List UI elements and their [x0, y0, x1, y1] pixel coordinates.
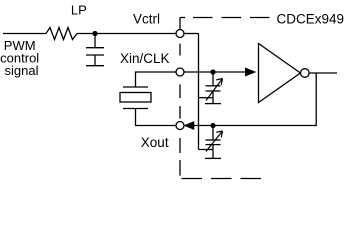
ground bar varactor C1 [205, 103, 221, 105]
crystal bottom plate [123, 108, 148, 110]
varactor C1 plate 1 [206, 85, 221, 87]
wire resistor to Vctrl pin [77, 33, 176, 35]
arrowhead into inverter [246, 68, 256, 76]
varactor C2 bottom wire [212, 145, 214, 159]
wire stub rail to varactor C1 [199, 97, 214, 99]
pin Vctrl [176, 30, 184, 38]
svg-text:CDCEx949: CDCEx949 [277, 12, 345, 27]
varactor C1 plate 2 [206, 90, 221, 92]
arrowhead into Xout pin [185, 122, 194, 129]
crystal body [120, 93, 151, 103]
svg-text:Vctrl: Vctrl [133, 12, 160, 27]
wire stub rail to varactor C2 [199, 149, 214, 151]
dashed IC boundary left edge [179, 18, 181, 176]
node junction varactor C1 [210, 69, 215, 74]
svg-text:LP: LP [71, 3, 87, 18]
op-amp U1 inverter triangle [259, 44, 301, 103]
node junction varactor C2 [210, 123, 215, 128]
wire Xin pin to crystal [136, 72, 177, 87]
varactor C1 bottom wire [212, 91, 214, 104]
svg-text:signal: signal [5, 63, 39, 78]
wire inverter output [309, 72, 337, 74]
pin Xin/CLK [176, 68, 184, 76]
varactor C2 plate 2 [206, 144, 221, 146]
wire Vctrl pin to rail [184, 33, 199, 35]
inverter output bubble [301, 69, 310, 78]
pin Xout [176, 122, 184, 130]
varactor C1 top electrode wire [212, 72, 214, 86]
dashed IC boundary top edge [180, 17, 270, 19]
crystal top plate [123, 86, 148, 88]
wire feedback to Xout [194, 73, 317, 126]
varactor C2 plate 1 [206, 139, 221, 141]
svg-text:Xout: Xout [141, 135, 169, 150]
ground bar varactor C2 [205, 157, 221, 159]
wire Xin row to inverter [184, 71, 246, 73]
varactor C2 top electrode wire [212, 126, 214, 141]
varactor C1 arrow [206, 79, 223, 101]
wire crystal to Xout pin [136, 109, 177, 126]
wire PWM input [3, 33, 46, 35]
varactor C2 arrow [206, 131, 223, 152]
node junction LP filter [92, 31, 97, 36]
ground bar LP capacitor [86, 65, 104, 67]
svg-text:Xin/CLK: Xin/CLK [120, 51, 170, 66]
resistor LP [46, 28, 77, 40]
capacitor C LP filter [94, 34, 96, 48]
wire Vctrl control rail [198, 34, 200, 150]
dashed IC boundary bottom edge [182, 178, 262, 180]
